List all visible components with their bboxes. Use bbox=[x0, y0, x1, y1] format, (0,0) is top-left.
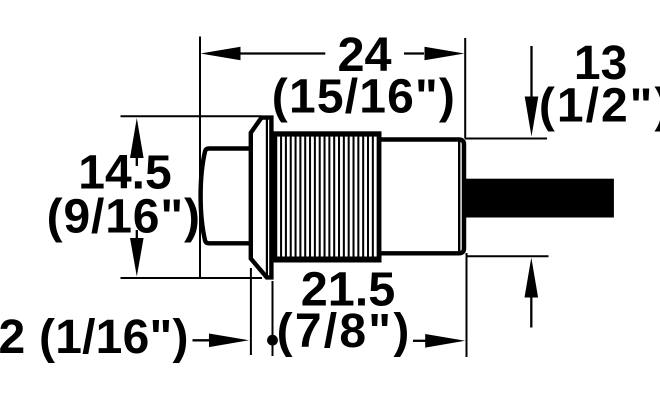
wire: 2mm arrow bbox=[193, 334, 250, 348]
svg-text:(15/16"): (15/16") bbox=[272, 70, 455, 123]
cable bbox=[464, 179, 614, 218]
flange (mounting bezel) bbox=[251, 118, 272, 278]
wire: 14.5 up arrow bbox=[130, 118, 144, 166]
wire: 13 top extension line bbox=[465, 138, 547, 140]
wire: 2mm left extension line bbox=[250, 268, 252, 355]
wire: dimension line 24 left segment with arrow bbox=[201, 47, 326, 61]
svg-text:(7/8"): (7/8") bbox=[277, 305, 410, 358]
wire: left extension line of 24 dim bbox=[199, 37, 201, 278]
svg-text:(9/16"): (9/16") bbox=[47, 191, 200, 244]
wire: right extension line of 24 dim (top segment) bbox=[464, 38, 466, 139]
wire: bottom extension line of 14.5 dim bbox=[121, 277, 263, 279]
rear housing end-cap line bbox=[458, 142, 460, 252]
wire: top extension line of 14.5 dim bbox=[121, 115, 262, 117]
node: dimension origin dot bbox=[267, 335, 278, 346]
wire: right extension line bottom segment bbox=[466, 253, 468, 357]
wire: dimension line 24 right segment with arrow bbox=[404, 47, 465, 61]
button front cap bbox=[201, 149, 251, 244]
wire: 14.5 down arrow bbox=[130, 230, 144, 277]
threaded barrel bbox=[272, 131, 382, 262]
svg-text:2 (1/16"): 2 (1/16") bbox=[0, 311, 189, 364]
wire: 13 down arrow bbox=[525, 46, 539, 137]
wire: 13 bottom extension line bbox=[468, 255, 549, 257]
wire: 13 up arrow bbox=[525, 258, 539, 328]
rear housing body bbox=[379, 140, 464, 254]
wire: 21.5 left extension line with dot bbox=[272, 281, 274, 356]
wire: 21.5 arrow bbox=[413, 334, 465, 348]
flange inner edge line bbox=[266, 119, 268, 276]
